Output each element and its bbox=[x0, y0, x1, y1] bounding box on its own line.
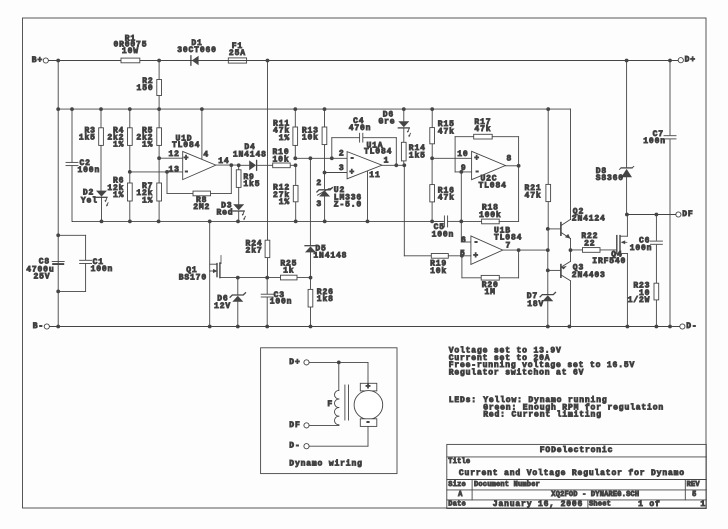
svg-text:2: 2 bbox=[339, 149, 345, 158]
svg-text:January 16, 2006: January 16, 2006 bbox=[493, 500, 583, 509]
junction B+ rail bbox=[56, 59, 672, 63]
field coil F bbox=[327, 362, 348, 425]
svg-text:+: + bbox=[366, 383, 372, 392]
svg-text:DF: DF bbox=[682, 210, 693, 219]
svg-text:DF: DF bbox=[289, 421, 300, 430]
wire U1A pin11 bbox=[367, 172, 369, 222]
svg-text:TL084: TL084 bbox=[172, 141, 200, 150]
svg-text:Size: Size bbox=[448, 481, 466, 489]
svg-text:A: A bbox=[458, 491, 463, 499]
capacitor C4 feedback bbox=[332, 117, 397, 165]
svg-text:Document Number: Document Number bbox=[474, 481, 540, 489]
resistor R16 bbox=[430, 158, 455, 221]
svg-text:D+: D+ bbox=[289, 358, 300, 367]
svg-text:Sheet: Sheet bbox=[589, 500, 611, 508]
svg-text:S8360: S8360 bbox=[596, 174, 624, 183]
capacitor C2 bbox=[66, 109, 100, 221]
svg-text:+: + bbox=[184, 154, 190, 163]
svg-text:100k: 100k bbox=[479, 211, 502, 220]
resistor R22 bbox=[571, 232, 601, 252]
svg-text:47k: 47k bbox=[438, 127, 455, 136]
transistor Q3 bbox=[546, 248, 606, 326]
svg-text:100n: 100n bbox=[643, 137, 666, 146]
op-amp U2C bbox=[461, 151, 512, 190]
svg-text:12: 12 bbox=[168, 150, 179, 159]
svg-text:1k5: 1k5 bbox=[409, 151, 426, 160]
svg-text:Current and Voltage Regulator: Current and Voltage Regulator for Dynamo bbox=[459, 469, 685, 478]
terminal OD- bbox=[680, 322, 698, 331]
svg-text:47k: 47k bbox=[474, 125, 491, 134]
svg-text:150: 150 bbox=[137, 84, 154, 93]
svg-text:1k5: 1k5 bbox=[243, 180, 260, 189]
junction pin10 node bbox=[430, 156, 434, 160]
junction B- rail bbox=[56, 325, 672, 329]
svg-text:7: 7 bbox=[506, 242, 512, 251]
svg-text:XQ2FOD - DYNAREG.SCH: XQ2FOD - DYNAREG.SCH bbox=[551, 491, 639, 499]
svg-text:TL084: TL084 bbox=[479, 181, 507, 190]
wire U1A output bbox=[382, 163, 406, 167]
svg-text:Red: Current limiting: Red: Current limiting bbox=[483, 411, 602, 420]
svg-text:Red: Red bbox=[216, 209, 233, 218]
svg-text:25A: 25A bbox=[229, 49, 246, 58]
LED D3 bbox=[216, 201, 245, 221]
svg-text:2N4124: 2N4124 bbox=[572, 215, 606, 224]
svg-text:B-: B- bbox=[33, 322, 44, 331]
resistor R19 bbox=[404, 254, 471, 276]
wire left rail bbox=[57, 61, 59, 327]
svg-text:25V: 25V bbox=[33, 273, 50, 282]
dynamo wiring box bbox=[261, 348, 397, 474]
svg-text:D+: D+ bbox=[685, 56, 696, 65]
svg-text:3: 3 bbox=[339, 164, 345, 173]
svg-text:-: - bbox=[475, 167, 481, 176]
shunt reference U2 bbox=[316, 173, 362, 222]
dynamo armature bbox=[354, 362, 383, 446]
svg-text:B+: B+ bbox=[32, 56, 43, 65]
capacitor C5 bbox=[432, 216, 462, 239]
diode D4 bbox=[233, 143, 273, 170]
svg-text:1M: 1M bbox=[485, 288, 496, 297]
terminal B+ bbox=[32, 56, 49, 65]
svg-text:2N4403: 2N4403 bbox=[572, 271, 606, 280]
resistor R24 bbox=[246, 240, 270, 278]
svg-text:2M2: 2M2 bbox=[193, 203, 210, 212]
resistor R9 bbox=[236, 165, 260, 204]
wire pin3 row bbox=[323, 171, 348, 175]
wire U2C output bbox=[505, 164, 520, 221]
svg-text:10k: 10k bbox=[430, 267, 447, 276]
svg-text:1%: 1% bbox=[279, 198, 290, 207]
wire ODF row bbox=[625, 213, 676, 217]
op-amp U1A bbox=[339, 142, 392, 181]
wire U1D output bbox=[216, 163, 239, 167]
resistor R8 feedback bbox=[165, 165, 231, 212]
svg-text:10: 10 bbox=[457, 150, 468, 159]
capacitor C7 bbox=[643, 61, 676, 327]
junction pin12 node bbox=[157, 156, 161, 160]
svg-text:10k: 10k bbox=[302, 134, 319, 143]
capacitor C6 bbox=[630, 215, 663, 284]
resistor R14 bbox=[401, 129, 425, 166]
svg-text:30CT060: 30CT060 bbox=[177, 46, 217, 55]
svg-text:+: + bbox=[473, 251, 479, 260]
svg-text:1%: 1% bbox=[142, 196, 153, 205]
svg-text:D-: D- bbox=[289, 442, 300, 451]
resistor R17 feedback bbox=[455, 118, 518, 172]
wire R24 from B+ bbox=[267, 61, 269, 241]
fuse F1 bbox=[228, 42, 246, 63]
svg-text:Z-5.0: Z-5.0 bbox=[334, 201, 362, 210]
label dynamo wiring bbox=[289, 460, 362, 469]
svg-text:D-: D- bbox=[686, 322, 697, 331]
svg-text:1%: 1% bbox=[113, 191, 124, 200]
svg-text:6: 6 bbox=[461, 236, 467, 245]
resistor R4 bbox=[107, 109, 132, 172]
note voltage settings bbox=[449, 347, 635, 378]
terminal D- dynamo bbox=[289, 442, 368, 451]
title block frame bbox=[447, 444, 707, 508]
svg-text:12V: 12V bbox=[214, 302, 231, 311]
svg-text:1N4148: 1N4148 bbox=[313, 252, 347, 261]
terminal B- bbox=[33, 322, 50, 331]
svg-text:+: + bbox=[474, 154, 480, 163]
resistor R13 bbox=[302, 109, 327, 172]
svg-text:18V: 18V bbox=[527, 300, 544, 309]
svg-text:10k: 10k bbox=[273, 155, 290, 164]
svg-text:+: + bbox=[349, 168, 355, 177]
wire ground bus bbox=[73, 220, 444, 222]
svg-text:1 of: 1 of bbox=[638, 500, 661, 509]
svg-text:Date: Date bbox=[448, 500, 466, 508]
svg-text:100n: 100n bbox=[432, 230, 455, 239]
svg-text:100n: 100n bbox=[630, 244, 653, 253]
junction ground bus bbox=[100, 220, 434, 224]
svg-text:3: 3 bbox=[316, 200, 322, 209]
op-amp U1B bbox=[460, 227, 522, 265]
junction mid bus bbox=[56, 107, 550, 111]
wire U1B output bbox=[503, 248, 550, 252]
svg-text:Gre: Gre bbox=[378, 118, 395, 127]
svg-text:1%: 1% bbox=[142, 141, 153, 150]
svg-text:47k: 47k bbox=[438, 194, 455, 203]
op-amp U1D bbox=[130, 109, 230, 180]
resistor R21 bbox=[525, 109, 551, 250]
svg-text:100n: 100n bbox=[78, 166, 101, 175]
svg-text:100n: 100n bbox=[270, 298, 293, 307]
svg-text:1: 1 bbox=[700, 500, 706, 509]
resistor R6 bbox=[107, 172, 132, 222]
resistor R15 bbox=[430, 109, 455, 158]
junction D5 node bbox=[309, 276, 313, 280]
capacitor C8 bbox=[26, 258, 64, 282]
resistor R10 bbox=[273, 148, 296, 168]
resistor R23 bbox=[628, 282, 659, 327]
resistor R18 bbox=[459, 170, 518, 242]
LED D6 green bbox=[378, 109, 410, 137]
note LEDs bbox=[449, 396, 664, 419]
transistor Q4 bbox=[592, 215, 627, 327]
diode D8 schottky bbox=[596, 61, 634, 215]
resistor R1 bbox=[49, 35, 158, 63]
diode D1 bbox=[177, 39, 217, 65]
transistor Q2 bbox=[546, 109, 606, 250]
transistor Q1 bbox=[179, 221, 238, 326]
svg-text:Yel: Yel bbox=[81, 197, 98, 206]
svg-text:1%: 1% bbox=[279, 134, 290, 143]
wire input rowA bbox=[293, 156, 347, 167]
wire U1A out down bbox=[403, 165, 405, 256]
svg-text:47k: 47k bbox=[525, 191, 542, 200]
capacitor C1 bbox=[56, 233, 113, 293]
svg-text:1k: 1k bbox=[283, 267, 294, 276]
zener D7 bbox=[527, 250, 556, 326]
capacitor C3 bbox=[261, 278, 292, 327]
svg-text:470n: 470n bbox=[349, 124, 372, 133]
svg-text:13: 13 bbox=[168, 165, 179, 174]
svg-text:FODelectronic: FODelectronic bbox=[540, 446, 613, 455]
title block text bbox=[448, 446, 706, 509]
svg-text:-: - bbox=[184, 168, 190, 177]
svg-text:1N4148: 1N4148 bbox=[233, 150, 267, 159]
resistor R12 bbox=[273, 165, 298, 221]
junction R9 node bbox=[237, 163, 241, 167]
resistor R7 bbox=[136, 158, 161, 221]
svg-text:100n: 100n bbox=[91, 265, 114, 274]
svg-text:22: 22 bbox=[584, 239, 595, 248]
svg-text:Title: Title bbox=[448, 458, 470, 466]
resistor R25 bbox=[280, 259, 310, 280]
resistor R5 bbox=[136, 109, 161, 158]
svg-text:2k7: 2k7 bbox=[246, 247, 263, 256]
resistor R20 feedback bbox=[460, 250, 519, 297]
svg-text:IRF540: IRF540 bbox=[592, 257, 626, 266]
svg-text:5: 5 bbox=[692, 491, 696, 499]
wire B- bottom rail bbox=[50, 326, 680, 328]
svg-text:2: 2 bbox=[316, 179, 322, 188]
svg-text:-: - bbox=[366, 418, 372, 427]
wire B+ top rail bbox=[49, 60, 678, 62]
svg-text:Dynamo wiring: Dynamo wiring bbox=[289, 460, 362, 469]
wire source row bbox=[236, 276, 281, 280]
terminal DF dynamo bbox=[289, 421, 339, 430]
terminal ODF bbox=[676, 210, 694, 219]
terminal OD+ bbox=[678, 56, 696, 65]
svg-text:1/2W: 1/2W bbox=[628, 296, 651, 305]
svg-text:BS170: BS170 bbox=[179, 273, 207, 282]
terminal D+ dynamo bbox=[289, 358, 368, 367]
svg-text:Regulator switchon at 6V: Regulator switchon at 6V bbox=[449, 368, 585, 377]
wire pin10 row bbox=[432, 150, 472, 159]
svg-text:1k8: 1k8 bbox=[317, 295, 334, 304]
svg-text:1%: 1% bbox=[113, 141, 124, 150]
resistor R26 bbox=[308, 278, 334, 327]
svg-text:LEDs:: LEDs: bbox=[449, 396, 477, 405]
svg-text:1k5: 1k5 bbox=[79, 134, 96, 143]
svg-text:TL084: TL084 bbox=[364, 147, 392, 156]
zener D6 12V bbox=[214, 278, 245, 327]
svg-text:1: 1 bbox=[384, 157, 390, 166]
svg-text:-: - bbox=[474, 238, 480, 247]
svg-text:8: 8 bbox=[507, 155, 513, 164]
svg-text:REV: REV bbox=[687, 481, 701, 489]
svg-text:4: 4 bbox=[203, 151, 209, 160]
resistor R3 bbox=[79, 109, 104, 191]
LED D2 bbox=[81, 189, 108, 222]
junction pin13 node bbox=[128, 170, 132, 174]
resistor R2 bbox=[137, 61, 162, 110]
svg-text:-: - bbox=[350, 154, 356, 163]
diode D5 bbox=[305, 158, 347, 277]
resistor R11 bbox=[273, 109, 298, 158]
svg-text:F: F bbox=[327, 400, 333, 409]
svg-text:11: 11 bbox=[369, 171, 380, 180]
wire mid supply bus bbox=[58, 108, 570, 110]
svg-text:10W: 10W bbox=[122, 47, 139, 56]
